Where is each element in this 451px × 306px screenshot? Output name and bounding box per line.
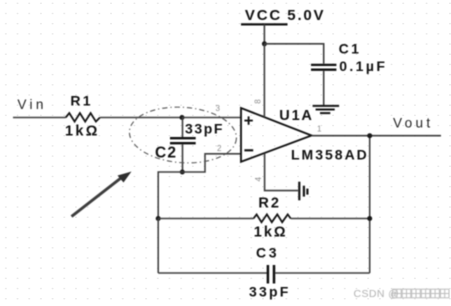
svg-text:C3: C3 [256,244,279,260]
svg-text:VCC: VCC [245,7,282,24]
capacitor C2 [155,118,224,173]
watermark CSDN [354,288,450,300]
svg-text:U1A: U1A [279,108,313,124]
op-amp U1A [241,108,369,163]
node A (junction at C2 top) [180,115,185,120]
svg-text:Vout: Vout [393,116,433,131]
svg-text:8: 8 [254,99,263,104]
wire node A to op-amp +input [182,117,241,119]
svg-text:1kΩ: 1kΩ [65,124,100,140]
wire C1 to ground [323,71,325,106]
pin 4 label [254,177,263,182]
wire node C down to C3 row [157,219,159,274]
power VCC 5.0V rail [241,7,325,44]
ground (C1) [313,106,340,113]
svg-text:3: 3 [216,104,221,113]
wire feedback right vertical [369,136,371,273]
resistor R1 [65,93,100,140]
pin 8 label [254,99,263,104]
node C (feedback left junction) [156,216,161,221]
svg-text:R1: R1 [70,93,93,109]
svg-text:R2: R2 [258,195,281,211]
node E (output junction) [367,133,372,138]
capacitor C3 [158,244,370,299]
svg-text:1: 1 [317,124,322,133]
svg-text:C1: C1 [339,40,362,56]
wire op-amp pin 4 to ground [265,153,298,190]
pin 3 label [216,104,221,113]
wire R1 to node A [100,117,182,119]
node B (junction below C2) [180,170,185,175]
wire node B to node C [158,172,182,219]
node F (VCC junction) [262,41,267,46]
svg-text:4: 4 [254,177,263,182]
wire node B to op-amp -input (staircase) [182,154,241,172]
wire op-amp output [312,135,442,137]
node D (feedback right junction at R2) [367,216,372,221]
pin 2 label [217,144,222,153]
annotation dashed ellipse around C2 [127,104,238,167]
svg-text:1kΩ: 1kΩ [254,225,288,241]
svg-text:2: 2 [217,144,222,153]
node Vin [17,97,46,112]
svg-text:33pF: 33pF [249,283,290,299]
resistor R2 [158,195,370,240]
svg-text:5.0V: 5.0V [287,7,325,24]
wire Vin to R1 [13,117,66,119]
svg-text:LM358AD: LM358AD [291,147,369,163]
svg-text:33pF: 33pF [185,121,224,137]
annotation arrow [72,172,132,217]
pin 1 label [317,124,322,133]
ground (pin 4) [299,182,307,201]
svg-text:Vin: Vin [17,97,46,112]
node Vout [393,116,433,131]
capacitor C1 [311,40,387,74]
svg-text:0.1µF: 0.1µF [339,58,387,74]
wire VCC to C1 [264,44,323,64]
wire VCC to op-amp pin 8 [263,44,265,117]
